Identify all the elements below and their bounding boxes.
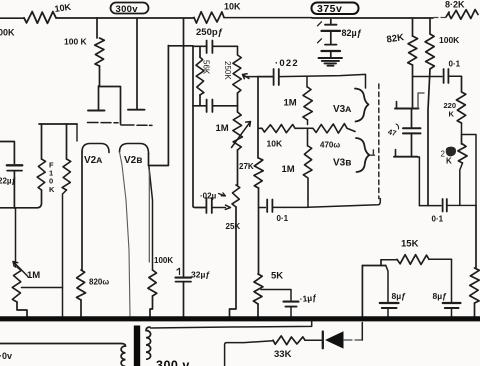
resistor 8.2K: [446, 10, 478, 20]
wire 204 horizontal: [0, 190, 42, 208]
capacitor 250pf plates: [207, 41, 213, 54]
resistor 100K PI: [425, 34, 434, 69]
chassis ground bus (thick): [0, 316, 480, 321]
tube V2B cathode arch: [120, 144, 149, 154]
svg-text:10K: 10K: [224, 2, 241, 12]
resistor 820R cathode: [77, 270, 86, 300]
wire 8uf-2 to bus: [451, 308, 453, 317]
wire 220K jog: [462, 123, 477, 206]
transformer secondary coil: [146, 327, 151, 359]
capacitor 32uf plate bottom: [176, 281, 192, 283]
wire cap mid: [330, 31, 332, 44]
capacitor 82uf s2 top: [325, 44, 337, 46]
wire 25K to bus: [230, 207, 237, 317]
tube V2A cathode arch: [82, 144, 109, 153]
triode bar lower: [394, 156, 418, 158]
resistor 10K (input plate feed): [24, 12, 56, 24]
wire plate bar up jog: [418, 93, 424, 109]
tube V3A brace: [355, 89, 369, 122]
svg-text:V2ᴀ: V2ᴀ: [84, 155, 102, 166]
resistor 100K V2A plate: [95, 38, 105, 66]
resistor F10K left: [37, 159, 45, 190]
svg-text:250pƒ: 250pƒ: [196, 27, 223, 38]
resistor 470R tone: [311, 124, 355, 134]
wire node A down: [96, 18, 98, 38]
svg-text:0·1: 0·1: [277, 214, 289, 223]
resistor F10K right: [62, 159, 71, 190]
wire grid-leak riser R: [66, 124, 68, 159]
capacitor 8uf-2 plate top: [443, 302, 461, 304]
capacitor 32uf plus tick: [177, 268, 180, 274]
resistor 10K tone: [259, 125, 304, 133]
plate bar riser: [396, 102, 398, 109]
svg-text:25K: 25K: [226, 222, 241, 231]
wire 0.1 lower left: [419, 205, 441, 207]
svg-text:V3ʙ: V3ʙ: [333, 158, 351, 169]
wire 5K tap: [261, 290, 291, 301]
wire 375v to cap: [330, 20, 332, 25]
resistor 1M tone upper: [303, 87, 312, 120]
wire cap22 down: [13, 171, 15, 208]
wire 5K to bus: [257, 304, 259, 317]
resistor right edge: [470, 268, 480, 303]
potentiometer 1M arrow: [232, 122, 251, 148]
resistor 56K: [196, 57, 204, 95]
wire bias riser: [225, 341, 273, 366]
resistor 1M tone lower: [303, 128, 312, 199]
svg-text:300 v: 300 v: [156, 359, 190, 366]
wire wiper rail down: [257, 77, 259, 158]
ground symbol: [319, 58, 343, 66]
wire column left: [15, 208, 17, 267]
node label 300v oval: [111, 3, 149, 14]
wire bus to 82K: [412, 19, 414, 36]
wire .022 to V3A: [279, 74, 365, 88]
wire loop left rail: [192, 46, 194, 106]
svg-text:56K: 56K: [202, 60, 211, 75]
wire .022 left: [267, 76, 273, 78]
wire 15K right down: [451, 259, 453, 302]
capacitor 8uf-2 plate bottom: [445, 307, 459, 309]
svg-text:K: K: [49, 185, 55, 194]
wire F10K-R down to bus: [63, 190, 67, 316]
wire 0.1 upper right: [449, 75, 462, 77]
svg-text:82µƒ: 82µƒ: [342, 28, 362, 38]
node label 375v oval: [312, 3, 359, 15]
wire bar to down rail: [418, 157, 420, 206]
wire 250K to 1M pot: [237, 93, 239, 112]
svg-text:15K: 15K: [401, 239, 419, 250]
svg-text:100K: 100K: [154, 256, 173, 265]
wire bus under 375v: [312, 17, 433, 19]
svg-text:27K: 27K: [239, 162, 254, 171]
svg-text:8µƒ: 8µƒ: [433, 291, 448, 301]
potentiometer 1M wiper arrow: [13, 262, 28, 277]
wire wiper to 27K rail: [244, 76, 259, 78]
polarity marks: [318, 22, 322, 43]
capacitor .02uf plates: [206, 198, 211, 213]
svg-text:33K: 33K: [274, 349, 292, 360]
wire loop top right: [213, 45, 238, 47]
svg-text:K: K: [446, 157, 452, 166]
wire 1M pot to bus: [17, 302, 27, 317]
svg-text:2: 2: [441, 150, 446, 159]
resistor 56K riser: [199, 46, 201, 57]
capacitor 32uf plate top: [176, 277, 192, 279]
capacitor .1uf plate bottom: [286, 306, 297, 308]
triode plate bar upper: [395, 108, 419, 110]
wire filter box top: [362, 265, 385, 267]
wire 0.1 to node X: [273, 206, 308, 208]
wire .1uf to bus: [290, 307, 292, 317]
svg-text:1M: 1M: [284, 98, 297, 109]
triode V2B plate wire: [136, 19, 138, 109]
potentiometer 250K: [233, 47, 242, 93]
wire 15K left: [381, 259, 397, 261]
potentiometer 1M vol: [233, 112, 243, 150]
resistor 10K second: [194, 12, 224, 23]
svg-text:10K: 10K: [54, 2, 72, 14]
wire 100K tail to bus: [150, 296, 153, 317]
wire 1M to node: [307, 120, 309, 125]
tube V3B brace: [356, 138, 369, 172]
svg-text:1M: 1M: [216, 123, 229, 134]
wire 15K left corner: [380, 260, 382, 266]
wire V2B rail ghost: [148, 170, 150, 262]
capacitor 22uf plate bottom: [7, 170, 22, 172]
svg-text:V2ʙ: V2ʙ: [124, 155, 142, 166]
resistor 220K: [456, 77, 465, 124]
wire horiz 45.5: [168, 45, 193, 47]
wire node X slope: [308, 199, 380, 208]
wire center rail: [411, 109, 413, 128]
wire bus to node A: [56, 17, 97, 19]
wire grid dash rail: [378, 84, 380, 199]
wire 1M to 25K: [237, 150, 239, 185]
wire bar right down: [76, 124, 78, 141]
wire right rail down: [475, 206, 477, 269]
wire 100K down: [428, 69, 430, 206]
bar lower riser: [395, 150, 397, 157]
capacitor .022 plates: [274, 69, 279, 85]
wire left edge to cap: [0, 142, 14, 164]
wire 1M wiper: [22, 287, 63, 289]
node A wire to 2nd 10K: [97, 17, 194, 19]
wire 22K to 0.1 lower: [460, 163, 463, 205]
svg-text:82K: 82K: [386, 32, 405, 45]
wire .02 to wiper arrow: [212, 205, 230, 209]
wire grid-leak top bar: [39, 123, 77, 125]
svg-text:8µƒ: 8µƒ: [392, 291, 407, 301]
svg-text:5K: 5K: [271, 271, 283, 282]
potentiometer 25K: [232, 185, 240, 207]
wire 100K to plate: [99, 66, 100, 110]
resistor 56K tail: [199, 95, 201, 106]
svg-text:·1µƒ: ·1µƒ: [299, 292, 317, 304]
wire node cross: [304, 127, 312, 129]
resistor 82K: [408, 36, 418, 65]
wire 0.1 upper left: [413, 76, 443, 78]
svg-text:375v: 375v: [317, 3, 342, 15]
wire loop bottom right: [213, 105, 238, 107]
wire rail B+ to 32uf: [183, 19, 185, 277]
capacitor .1uf plate top: [284, 301, 299, 303]
svg-text:K: K: [449, 110, 455, 119]
potentiometer 1M: [12, 267, 21, 302]
triode V2B grid (dashed): [121, 124, 152, 126]
svg-text:47: 47: [387, 127, 397, 138]
wire .022 node to 1M: [306, 77, 308, 87]
wire diode riser to bus: [361, 323, 363, 341]
svg-text:470ω: 470ω: [320, 141, 340, 150]
potentiometer 250K wiper arrow: [243, 74, 250, 79]
resistor 33K: [273, 336, 305, 345]
wire 33K to diode: [305, 339, 322, 341]
wire jog coupling: [99, 87, 121, 125]
wire jog to riser: [149, 46, 169, 166]
capacitor 47 plate bottom: [403, 132, 421, 134]
wire right resistor to bus: [474, 303, 476, 317]
wire filter left to bus: [361, 266, 363, 318]
resistor 27K: [254, 158, 263, 188]
capacitor 0.1 plates: [267, 200, 272, 213]
wire bus dashes to 8.2K: [434, 17, 446, 19]
capacitor 22uf plate top: [7, 164, 22, 166]
capacitor 8uf-1 plate bottom: [382, 307, 397, 309]
triode V2B plate bar: [128, 109, 145, 111]
resistor 22K: [458, 135, 467, 164]
resistor 15K: [397, 255, 429, 265]
wire cap to gnd: [330, 51, 332, 57]
wire 0.1 lower right: [447, 204, 476, 206]
capacitor 82uf s1 bot: [322, 30, 341, 32]
svg-text:8·2K: 8·2K: [445, 0, 465, 10]
wire 8uf riser: [386, 266, 388, 303]
capacitor 0.1 upper plates: [444, 69, 449, 83]
svg-text:1M: 1M: [282, 164, 295, 175]
wire HT secondary run: [151, 321, 312, 328]
wire bus middle: [224, 17, 312, 19]
wire V2B right leg: [148, 154, 150, 166]
svg-text:V3ᴀ: V3ᴀ: [333, 104, 351, 115]
svg-text:0·1: 0·1: [432, 215, 444, 224]
transformer primary coil: [121, 344, 126, 366]
capacitor loop-bottom plates: [207, 100, 213, 113]
wire center rail 2: [411, 134, 413, 157]
capacitor 82uf s2 bot: [322, 50, 341, 52]
svg-text:10K: 10K: [267, 139, 283, 149]
capacitor 8uf-1 plate top: [380, 302, 399, 304]
svg-text:32µƒ: 32µƒ: [191, 270, 210, 280]
label 47 bracket: [396, 124, 399, 129]
svg-text:·022: ·022: [275, 58, 299, 69]
resistor 5K: [253, 274, 263, 304]
label arrow mark: [219, 193, 226, 196]
wire bus to 100K: [429, 19, 431, 34]
diode cathode bar: [322, 332, 324, 349]
svg-text:820ω: 820ω: [89, 278, 109, 287]
wire to .022 cap: [258, 76, 267, 78]
triode V2A plate bar: [88, 110, 105, 112]
diode rectifier triangle: [325, 331, 344, 348]
capacitor 82uf s1 top: [325, 24, 337, 26]
wire diode to bus: [344, 339, 362, 341]
wire grid-leak riser L: [41, 124, 43, 159]
svg-text:0·1: 0·1: [449, 60, 461, 69]
svg-text:·0v: ·0v: [0, 351, 12, 361]
wire loop top left: [193, 45, 206, 47]
wire 820 to bus: [80, 300, 82, 317]
svg-text:100K: 100K: [0, 28, 15, 38]
wire V2A left leg: [81, 152, 83, 270]
svg-text:100K: 100K: [439, 35, 460, 45]
wire loop-left down: [193, 106, 205, 208]
capacitor 47 plate top: [403, 127, 421, 129]
wire 27K to 5K: [258, 188, 260, 274]
wire 82K down: [412, 65, 414, 108]
svg-text:100 K: 100 K: [64, 37, 88, 47]
wire 27K rail to 0.1: [259, 207, 266, 209]
capacitor 0.1 lower plates: [443, 199, 447, 212]
wire 32uf to bus: [183, 282, 185, 317]
wire 300v bus left: [0, 17, 24, 19]
wire heater left: [0, 343, 121, 345]
transformer core: [134, 326, 140, 366]
resistor 100K tail: [148, 270, 157, 296]
wire loop bottom left: [193, 105, 206, 107]
svg-text:·02µ: ·02µ: [200, 192, 217, 201]
wire 15K right: [429, 258, 452, 260]
svg-text:1M: 1M: [27, 270, 40, 281]
wire 8uf-1 to bus: [387, 308, 389, 317]
wire V2B left leg (light): [120, 152, 131, 316]
svg-text:250K: 250K: [223, 61, 232, 80]
triode V2A grid (dashed): [88, 122, 119, 124]
wire V2B down rail: [149, 166, 153, 271]
svg-text:22µƒ: 22µƒ: [0, 177, 17, 186]
svg-text:300v: 300v: [116, 4, 139, 15]
wire cathode tick: [369, 150, 375, 155]
